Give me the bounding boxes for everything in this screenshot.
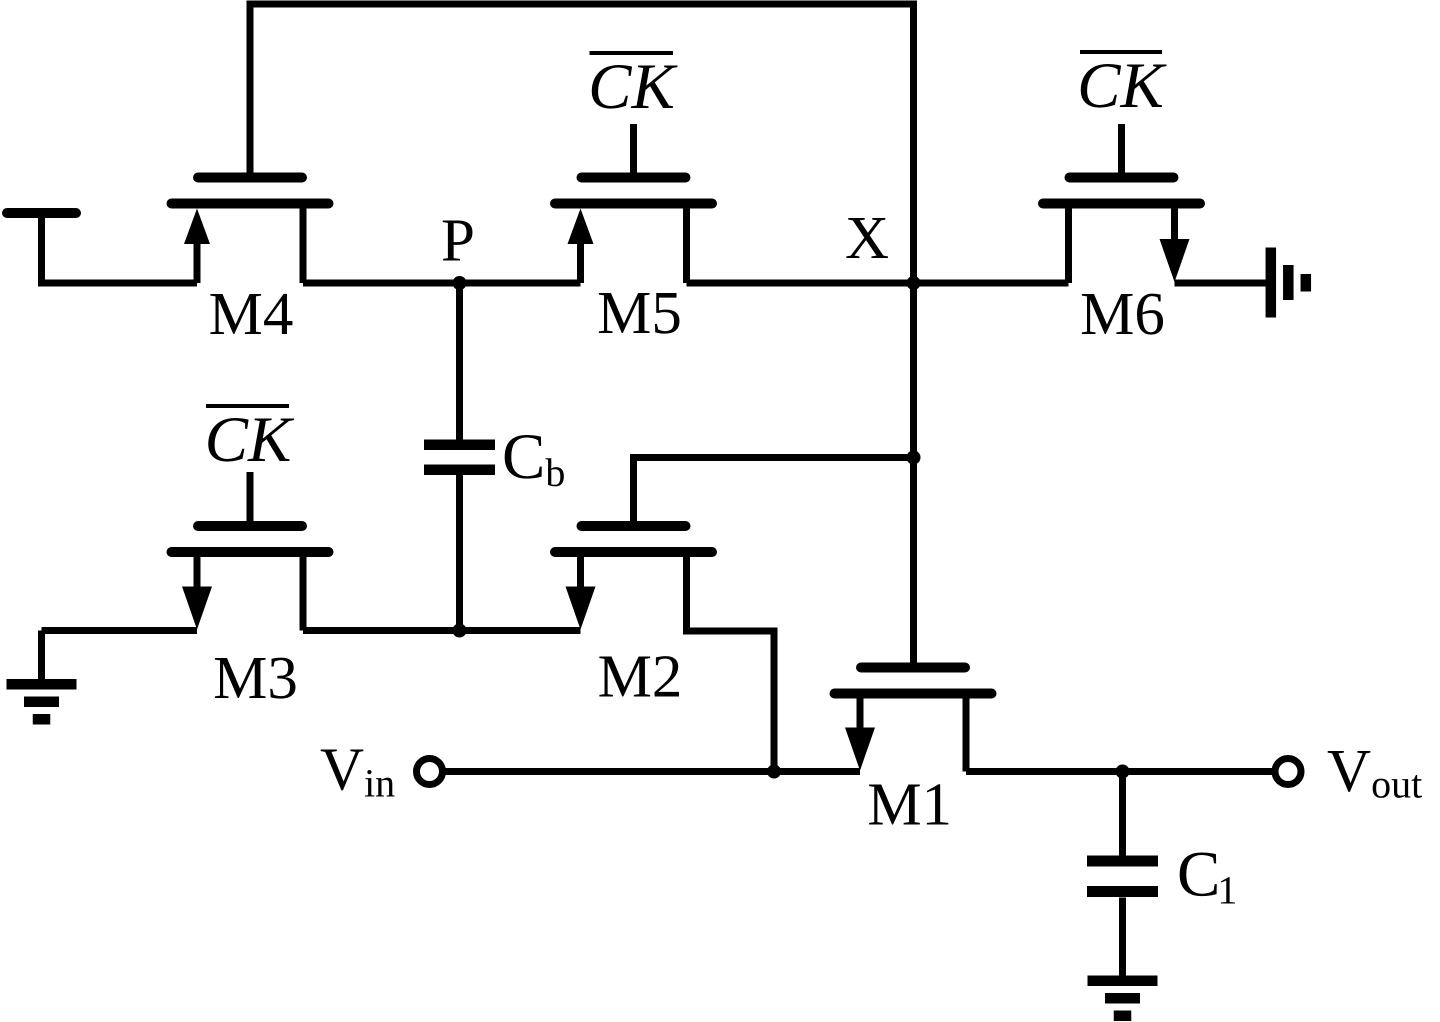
svg-text:M6: M6 — [1080, 281, 1165, 348]
svg-text:P: P — [441, 208, 475, 275]
svg-text:M3: M3 — [213, 645, 298, 712]
svg-text:M5: M5 — [597, 280, 682, 347]
svg-text:M4: M4 — [209, 281, 294, 348]
svg-text:CK: CK — [205, 404, 295, 476]
svg-text:M2: M2 — [598, 644, 683, 711]
svg-text:CK: CK — [588, 51, 678, 123]
svg-text:M1: M1 — [867, 771, 952, 838]
svg-text:X: X — [845, 205, 889, 272]
svg-text:CK: CK — [1077, 50, 1167, 122]
